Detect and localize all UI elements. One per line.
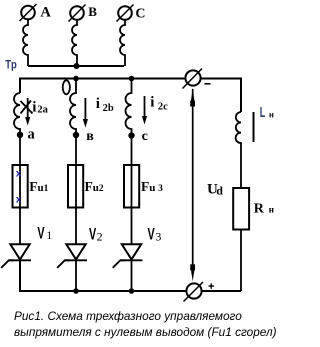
svg-text:1: 1 (46, 228, 52, 242)
svg-text:i: i (96, 96, 100, 112)
svg-text:C: C (135, 6, 145, 21)
svg-text:B: B (88, 4, 97, 19)
svg-text:2: 2 (97, 229, 103, 243)
svg-text:a: a (28, 127, 36, 143)
svg-text:2b: 2b (103, 103, 114, 114)
svg-text:A: A (40, 4, 51, 20)
svg-text:V: V (148, 225, 155, 243)
svg-text:V: V (37, 224, 44, 242)
svg-text:x: x (16, 194, 22, 205)
svg-text:2a: 2a (37, 105, 48, 116)
svg-text:Рис1. Схема трехфазного управл: Рис1. Схема трехфазного управляемого (14, 309, 242, 323)
svg-text:c: c (142, 129, 148, 144)
svg-text:L: L (260, 104, 266, 121)
svg-text:i: i (150, 94, 154, 110)
svg-text:выпрямителя с нулевым выводом: выпрямителя с нулевым выводом (Fu1 сгоре… (14, 325, 277, 339)
svg-text:V: V (89, 225, 96, 243)
svg-text:Tp: Tp (5, 58, 17, 72)
svg-text:3: 3 (155, 229, 161, 243)
svg-text:2c: 2c (158, 101, 168, 112)
svg-text:Fu 3: Fu 3 (141, 179, 163, 194)
svg-text:Fu2: Fu2 (85, 179, 104, 194)
svg-text:R: R (254, 202, 265, 217)
svg-text:i: i (32, 100, 36, 116)
svg-text:в: в (86, 129, 94, 144)
svg-text:н: н (269, 111, 274, 120)
svg-text:Fu1: Fu1 (29, 179, 48, 194)
svg-text:н: н (269, 205, 274, 215)
svg-text:x: x (16, 168, 22, 179)
svg-text:d: d (216, 183, 223, 197)
